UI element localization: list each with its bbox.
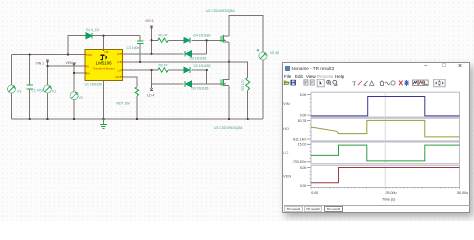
labels (values and designators) <box>17 9 279 130</box>
wire D3 row right <box>192 53 207 55</box>
node VIN arrow <box>46 60 49 63</box>
svg-text:Transient Bootst: Transient Bootst <box>93 66 115 70</box>
wire HO pin <box>123 53 152 55</box>
svg-text:C1 470u: C1 470u <box>32 88 45 92</box>
svg-text:HO 3: HO 3 <box>146 19 154 23</box>
wire lower FET source <box>228 86 230 119</box>
svg-text:D4 1N1183: D4 1N1183 <box>194 34 211 38</box>
wire D0 row left <box>152 83 184 85</box>
wire R1 to D4 <box>168 39 183 41</box>
diode D0 <box>185 81 191 87</box>
chart corner <box>424 80 428 86</box>
trace VIN <box>311 97 460 116</box>
wire D0 row right <box>192 83 207 85</box>
svg-text:D0 1N1183: D0 1N1183 <box>192 87 209 91</box>
svg-text:IN: IN <box>86 64 89 68</box>
ground <box>100 119 107 129</box>
svg-text:VIN 1: VIN 1 <box>36 62 45 66</box>
voltage source V3 <box>8 85 16 93</box>
svg-text:63.78: 63.78 <box>298 119 307 123</box>
svg-text:D3 1N1183: D3 1N1183 <box>190 57 207 61</box>
y axis labels <box>292 93 306 188</box>
wire VEN node vertical <box>73 66 75 92</box>
svg-text:U1 LM5106: U1 LM5106 <box>85 83 103 87</box>
svg-text:LO: LO <box>283 150 288 155</box>
bottom tabs <box>284 206 469 212</box>
wire HB top pin <box>103 36 105 50</box>
voltage source V5 <box>259 52 267 60</box>
svg-text:R2 47: R2 47 <box>159 63 168 67</box>
svg-text:-793.67m: -793.67m <box>292 160 306 164</box>
wire R2 to D2 <box>168 69 183 71</box>
wire switch node vertical <box>228 42 230 80</box>
wave <box>385 82 389 85</box>
svg-text:LM5106: LM5106 <box>96 61 112 66</box>
junction dots <box>29 35 249 121</box>
window title bar <box>283 63 469 74</box>
svg-text:D2 1N1183: D2 1N1183 <box>194 64 211 68</box>
pen angle <box>364 81 368 86</box>
wire V3 bottom branch <box>11 93 13 119</box>
wire VIN node vertical <box>47 63 49 85</box>
wire lower gate to FET <box>207 83 226 85</box>
svg-text:U2 CSD19534Q5A: U2 CSD19534Q5A <box>206 9 235 13</box>
zoom area <box>333 80 337 84</box>
svg-text:0.00: 0.00 <box>300 184 307 188</box>
x axis labels <box>311 191 468 202</box>
wire EN pin <box>74 72 85 74</box>
voltage source V1 <box>44 85 52 93</box>
wire HS to R3 <box>229 62 248 78</box>
svg-text:VEN: VEN <box>66 61 74 65</box>
svg-text:Time (s): Time (s) <box>382 198 395 202</box>
paste <box>310 79 314 84</box>
wire V1 bottom <box>47 93 49 119</box>
toolbar <box>283 79 469 90</box>
svg-text:D1 0_D1: D1 0_D1 <box>86 28 99 32</box>
wire gate node vertical upper <box>206 40 208 54</box>
menu bar <box>283 73 469 80</box>
pen red <box>358 80 362 84</box>
wire C1 bottom <box>29 89 31 119</box>
svg-text:U3 CSD19534Q5A: U3 CSD19534Q5A <box>214 126 243 130</box>
svg-text:15.02: 15.02 <box>298 143 307 147</box>
diode D3 <box>185 51 191 57</box>
svg-text:R1 47: R1 47 <box>159 34 168 38</box>
axis ticks <box>307 95 311 186</box>
transistor U3 lower MOSFET <box>221 79 229 86</box>
resistor RDT <box>135 87 139 96</box>
wire VDD to D1 branch <box>68 36 86 55</box>
svg-text:50.00u: 50.00u <box>457 191 468 195</box>
svg-text:-811.14m: -811.14m <box>292 137 306 141</box>
wire C1 top <box>29 54 31 84</box>
resistor R2 <box>158 68 169 72</box>
svg-text:RDT: RDT <box>115 75 121 79</box>
center gridlines <box>384 92 386 187</box>
pin arrows <box>85 50 122 78</box>
wire C3 bottom to HS row <box>139 44 141 62</box>
chart red <box>418 80 422 86</box>
circle <box>391 80 395 84</box>
svg-text:VIN: VIN <box>283 101 290 106</box>
node VEN arrow <box>72 63 75 66</box>
save <box>291 80 296 85</box>
capacitor C1 <box>26 85 33 89</box>
wire VSS pin <box>102 81 104 119</box>
wire V5 bottom <box>262 60 264 119</box>
panel names <box>283 101 291 178</box>
wire VDD rail <box>12 53 85 55</box>
wire RDT bottom <box>136 96 138 119</box>
wire R3 bottom <box>247 90 249 119</box>
ruler <box>369 81 374 85</box>
trace HO <box>311 120 460 136</box>
svg-text:HS: HS <box>117 60 121 64</box>
svg-text:C3 100n: C3 100n <box>127 46 140 50</box>
svg-text:RDT 10k: RDT 10k <box>117 102 131 106</box>
resistor R3 <box>246 77 250 90</box>
resistor R1 <box>158 38 169 42</box>
wire LO pin <box>123 69 158 71</box>
chart bw <box>412 80 417 86</box>
wire LO node vertical <box>151 70 153 84</box>
svg-text:V3: V3 <box>17 90 21 94</box>
svg-text:R3 100: R3 100 <box>241 79 245 90</box>
wire lower gate vertical <box>206 70 208 84</box>
wire V3 top branch <box>11 54 13 84</box>
node HO arrow <box>150 26 153 29</box>
svg-text:HO: HO <box>283 126 289 131</box>
svg-text:0.00: 0.00 <box>300 113 307 117</box>
transistor U2 upper MOSFET <box>221 35 229 42</box>
wire C3 top stub <box>139 36 141 41</box>
wire R1 left <box>152 39 158 41</box>
wire ground rail <box>12 118 264 120</box>
wire D1 cathode to C3/HB <box>93 35 141 37</box>
trace VEN <box>311 168 460 183</box>
wire V2 bottom <box>73 100 75 119</box>
voltage source V2 <box>70 92 78 100</box>
op-amp U1 LM5106 IC body <box>85 50 123 81</box>
trace LO <box>311 145 460 161</box>
zoom in <box>327 80 331 84</box>
blue cross tool <box>404 80 409 86</box>
wire D2 to lower gate node <box>192 69 207 71</box>
panel frames <box>311 92 460 187</box>
wire RDT pin <box>123 77 137 87</box>
diode D4 <box>184 38 190 44</box>
capacitor C3 <box>137 41 144 43</box>
node LO arrow <box>150 84 153 91</box>
open <box>284 81 289 85</box>
wire HO node vertical <box>151 29 153 54</box>
waveform viewer window <box>282 62 470 213</box>
svg-text:V1: V1 <box>52 90 56 94</box>
svg-text:VDD: VDD <box>86 53 92 57</box>
svg-text:0.00: 0.00 <box>311 191 318 195</box>
svg-text:HB: HB <box>105 50 109 54</box>
svg-text:5.00: 5.00 <box>300 166 307 170</box>
svg-text:V2: V2 <box>79 96 83 100</box>
red cross tool <box>399 80 403 85</box>
svg-text:5.00: 5.00 <box>300 93 307 97</box>
wire upper FET drain <box>229 16 263 52</box>
arrow pad <box>434 79 445 87</box>
wire D4 to gate node <box>192 39 226 41</box>
svg-text:T: T <box>352 80 356 87</box>
svg-text:25.00u: 25.00u <box>386 191 397 195</box>
wire IN pin <box>48 65 85 67</box>
cursor pressed <box>317 79 324 87</box>
V5 plus mark <box>257 49 260 52</box>
house <box>380 80 384 85</box>
svg-text:V5 48: V5 48 <box>270 51 279 55</box>
svg-text:LO 4: LO 4 <box>147 94 154 98</box>
diode D2 <box>184 67 190 73</box>
wire D3 row left <box>152 53 184 55</box>
wire HS row <box>123 61 229 63</box>
copy <box>304 79 308 84</box>
svg-text:EN: EN <box>86 71 90 75</box>
svg-text:VEN: VEN <box>283 173 291 178</box>
diode D1 bootstrap <box>86 33 92 39</box>
plot area <box>283 89 469 207</box>
